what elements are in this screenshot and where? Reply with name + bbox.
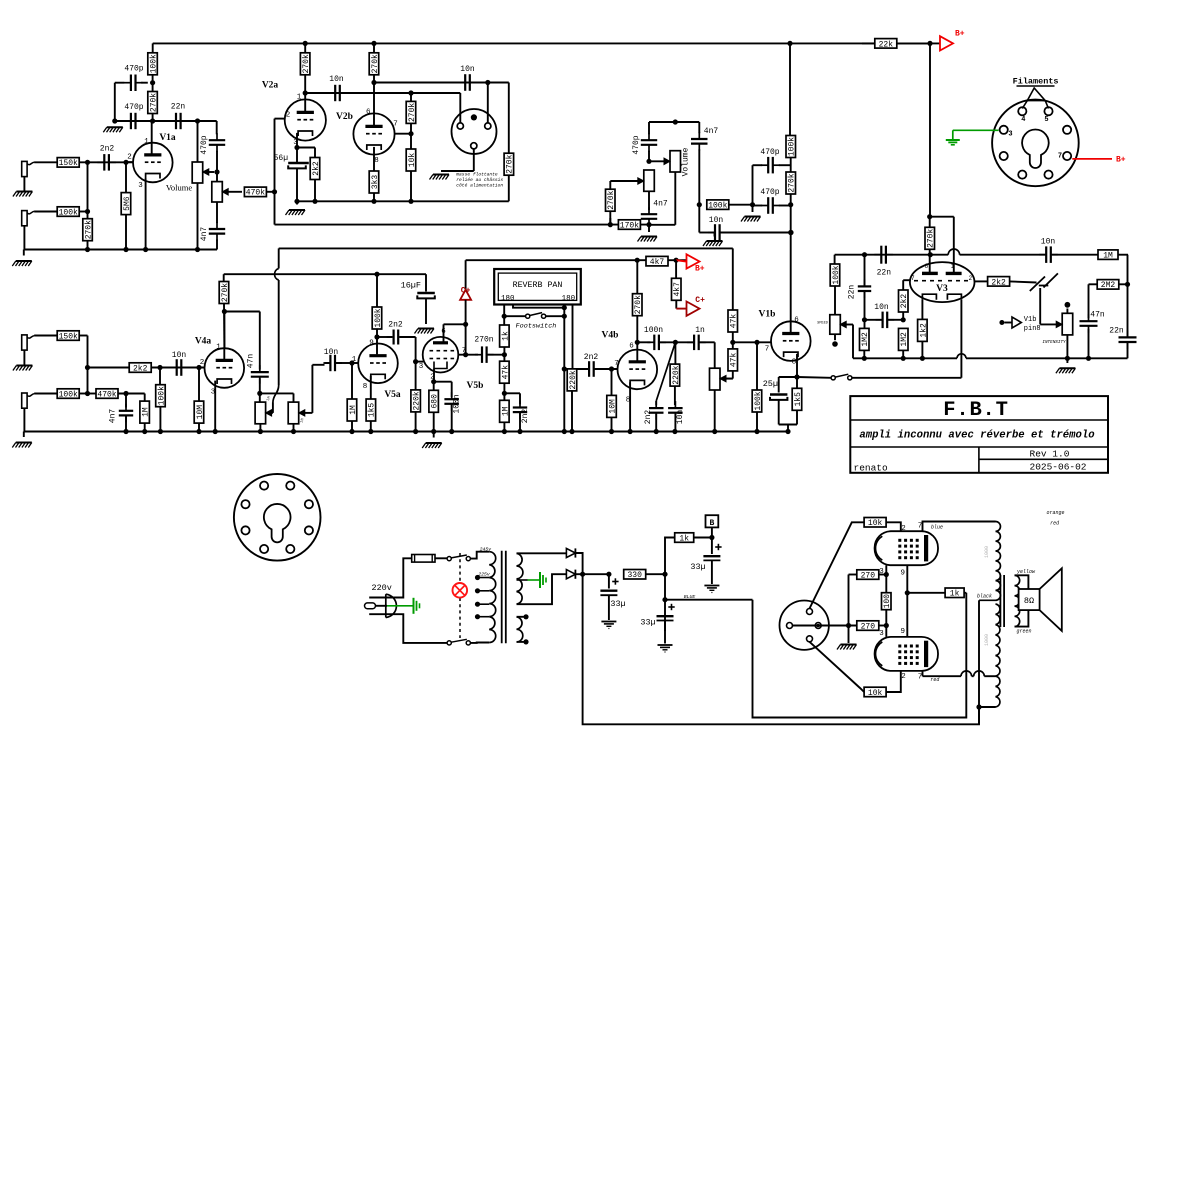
svg-text:1: 1 [144,138,149,146]
svg-text:270k: 270k [371,54,380,73]
svg-text:4n7: 4n7 [109,409,118,424]
svg-text:10n: 10n [709,216,724,225]
svg-text:1k2: 1k2 [919,323,928,338]
svg-text:22n: 22n [877,269,892,278]
svg-text:1M: 1M [1103,252,1113,261]
svg-text:220k: 220k [569,370,578,389]
svg-text:270k: 270k [84,220,93,239]
svg-text:C+: C+ [461,287,471,296]
svg-text:470p: 470p [124,103,143,112]
svg-text:8: 8 [363,383,368,391]
svg-text:10M: 10M [196,405,205,420]
svg-text:100k: 100k [59,390,78,399]
svg-text:F.B.T: F.B.T [943,399,1009,422]
svg-text:470p: 470p [200,135,209,154]
svg-text:2: 2 [901,673,906,681]
svg-text:270k: 270k [634,295,643,314]
svg-text:100: 100 [883,594,892,609]
svg-text:orange: orange [1046,510,1064,516]
svg-text:INTENSITY: INTENSITY [1042,340,1066,345]
svg-text:B+: B+ [695,265,705,274]
svg-text:6: 6 [629,343,634,351]
svg-text:4n7: 4n7 [200,227,209,242]
svg-text:22k: 22k [879,40,894,49]
svg-text:9: 9 [901,570,906,578]
svg-text:blue: blue [931,525,943,531]
svg-text:1k5: 1k5 [368,403,377,418]
svg-text:1M: 1M [267,396,273,402]
svg-text:47k: 47k [730,314,739,329]
svg-text:7: 7 [765,345,770,353]
svg-text:8: 8 [792,359,797,367]
svg-text:2k2: 2k2 [133,364,148,373]
svg-text:100k: 100k [754,391,763,410]
svg-text:16µF: 16µF [401,281,421,291]
svg-text:270k: 270k [221,283,230,302]
svg-text:10n: 10n [324,348,339,357]
svg-text:B+: B+ [1116,156,1126,165]
svg-text:470p: 470p [760,148,779,157]
svg-text:150k: 150k [59,332,78,341]
svg-text:22n: 22n [1109,327,1124,336]
svg-text:180: 180 [562,295,576,303]
svg-text:10k: 10k [408,153,417,168]
svg-text:5: 5 [1044,116,1048,124]
svg-text:1: 1 [297,94,302,102]
svg-text:ampli inconnu avec réverbe et: ampli inconnu avec réverbe et trémolo [859,430,1094,442]
svg-text:2: 2 [968,275,972,282]
svg-text:22n: 22n [848,285,857,300]
svg-text:22n: 22n [171,102,186,111]
svg-text:270k: 270k [607,190,616,209]
svg-text:Footswitch: Footswitch [516,323,557,331]
svg-text:1M: 1M [349,405,358,415]
svg-text:Filaments: Filaments [1013,76,1059,86]
svg-text:2n2: 2n2 [644,410,653,425]
svg-text:470k: 470k [246,189,265,198]
svg-text:V2b: V2b [336,112,353,122]
svg-text:V3: V3 [936,284,948,294]
svg-text:1: 1 [951,263,955,270]
svg-text:4: 4 [1021,116,1025,124]
svg-text:4n7: 4n7 [653,200,668,209]
svg-text:2: 2 [127,154,132,162]
svg-text:V1b: V1b [1024,316,1037,324]
svg-text:pin8: pin8 [1024,325,1041,333]
svg-text:B+: B+ [955,30,965,39]
svg-text:1k: 1k [950,590,960,599]
svg-text:33µ: 33µ [640,618,655,628]
svg-text:7: 7 [393,121,398,129]
svg-text:6: 6 [366,109,371,117]
svg-text:10n: 10n [676,410,685,425]
svg-text:red: red [1050,521,1059,527]
svg-text:V2a: V2a [262,81,279,91]
svg-text:10n: 10n [172,351,187,360]
svg-text:3: 3 [879,630,884,638]
svg-text:470k: 470k [97,390,116,399]
svg-text:2: 2 [901,525,906,533]
svg-text:3: 3 [138,182,143,190]
svg-text:270: 270 [861,571,876,580]
svg-text:25µ: 25µ [763,379,778,389]
svg-text:2025-06-02: 2025-06-02 [1030,462,1087,473]
svg-text:220v: 220v [371,583,391,593]
svg-text:10M: 10M [608,399,617,414]
svg-text:2n2: 2n2 [388,321,403,330]
svg-text:3: 3 [419,363,424,371]
svg-text:red: red [930,677,939,683]
svg-text:270k: 270k [927,228,936,247]
svg-text:4n7: 4n7 [704,127,719,136]
svg-text:47k: 47k [730,353,739,368]
svg-text:56µ: 56µ [274,154,289,163]
svg-text:680: 680 [431,394,440,409]
svg-text:5M6: 5M6 [123,196,132,211]
svg-text:1M2: 1M2 [861,332,870,347]
svg-text:47n: 47n [1090,311,1105,320]
svg-text:1k: 1k [501,331,510,341]
svg-text:1k: 1k [679,534,689,543]
svg-text:1n: 1n [695,326,705,335]
svg-text:2k2: 2k2 [991,278,1006,287]
svg-text:10k: 10k [868,519,883,528]
svg-text:9: 9 [369,340,374,348]
svg-text:V5b: V5b [467,381,484,391]
svg-text:100k: 100k [157,386,166,405]
svg-text:1000: 1000 [984,546,990,558]
svg-text:470p: 470p [760,188,779,197]
svg-text:green: green [1016,629,1031,635]
svg-text:470p: 470p [124,65,143,74]
svg-text:2n2: 2n2 [521,409,530,424]
svg-text:black: black [977,594,992,600]
svg-text:yellow: yellow [1016,569,1036,575]
svg-text:côté alimentation: côté alimentation [456,183,503,189]
svg-text:9: 9 [901,628,906,636]
svg-text:33µ: 33µ [610,599,625,609]
svg-text:100n: 100n [453,394,462,413]
svg-text:masse flottante: masse flottante [456,172,498,178]
svg-text:B: B [709,519,714,528]
svg-text:reliée au châssis: reliée au châssis [456,177,503,183]
svg-text:270: 270 [861,622,876,631]
svg-text:2k2: 2k2 [312,161,321,176]
svg-text:1M: 1M [501,406,510,416]
svg-text:470p: 470p [632,135,641,154]
svg-text:6: 6 [924,263,928,270]
svg-text:V4a: V4a [195,337,212,347]
svg-text:270n: 270n [474,336,493,345]
svg-text:2M2: 2M2 [1101,281,1116,290]
svg-text:SPEED: SPEED [817,322,829,326]
svg-text:V1b: V1b [759,310,776,320]
svg-text:270k: 270k [302,54,311,73]
svg-text:2n2: 2n2 [584,353,599,362]
svg-text:1M: 1M [142,407,151,417]
svg-text:100k: 100k [374,308,383,327]
svg-text:3: 3 [1008,131,1012,139]
svg-text:3k3: 3k3 [371,175,380,190]
svg-text:100k: 100k [788,137,797,156]
svg-text:100k: 100k [708,202,727,211]
svg-text:10k: 10k [868,689,883,698]
svg-text:1M2: 1M2 [900,332,909,347]
svg-text:Rev 1.0: Rev 1.0 [1030,449,1070,460]
svg-text:2: 2 [200,359,205,367]
svg-text:100k: 100k [59,208,78,217]
svg-text:33µ: 33µ [690,562,705,572]
svg-text:220k: 220k [413,391,422,410]
svg-text:270k: 270k [506,154,515,173]
svg-text:Volume: Volume [166,183,193,193]
svg-text:47k: 47k [501,365,510,380]
svg-text:10n: 10n [874,303,889,312]
svg-text:4k7: 4k7 [673,282,682,297]
svg-text:V4b: V4b [602,331,619,341]
svg-text:100n: 100n [644,326,663,335]
svg-text:1k5: 1k5 [794,392,803,407]
svg-text:renato: renato [854,463,889,474]
svg-text:V1a: V1a [159,133,176,143]
svg-text:225v: 225v [478,572,490,578]
svg-text:270k: 270k [150,93,159,112]
svg-text:170k: 170k [620,222,639,231]
svg-text:7: 7 [1058,153,1062,161]
svg-text:270k: 270k [408,103,417,122]
svg-text:6: 6 [794,316,799,324]
svg-text:100k: 100k [832,265,841,284]
svg-text:7: 7 [614,360,619,368]
svg-text:47n: 47n [247,354,256,369]
svg-text:C+: C+ [695,296,705,305]
svg-text:2k2: 2k2 [900,294,909,309]
svg-text:100k: 100k [150,54,159,73]
svg-text:REVERB PAN: REVERB PAN [513,281,563,290]
svg-text:180: 180 [501,295,515,303]
svg-text:V5a: V5a [384,390,401,400]
svg-text:1M: 1M [300,418,306,424]
svg-text:150k: 150k [59,159,78,168]
svg-text:4k7: 4k7 [650,258,665,267]
svg-text:1000: 1000 [984,634,990,646]
svg-text:2: 2 [286,111,291,119]
svg-text:2n2: 2n2 [100,145,115,154]
svg-text:Volume: Volume [682,147,691,176]
svg-text:330: 330 [627,571,642,580]
svg-text:10n: 10n [460,65,475,74]
svg-text:220k: 220k [672,365,681,384]
svg-text:10n: 10n [329,75,344,84]
svg-text:270k: 270k [788,173,797,192]
svg-text:10n: 10n [1041,238,1056,247]
svg-text:1: 1 [216,344,221,352]
svg-text:8Ω: 8Ω [1024,596,1034,606]
